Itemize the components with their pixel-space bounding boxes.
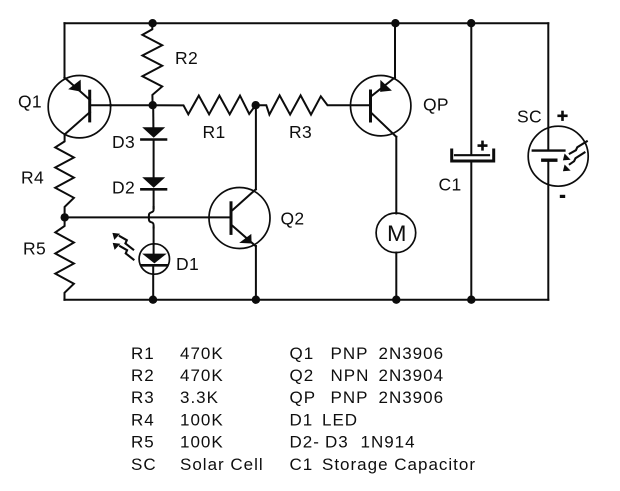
resistor R5	[55, 217, 74, 299]
svg-text:LED: LED	[322, 410, 358, 429]
resistor R1	[153, 96, 256, 115]
transistor Q1	[48, 76, 111, 138]
node Q2 emitter rail	[252, 296, 260, 304]
svg-text:2N3906: 2N3906	[379, 344, 445, 363]
svg-text:Q1: Q1	[18, 92, 42, 112]
svg-text:PNP: PNP	[331, 344, 369, 363]
wire Q2 emitter down	[255, 246, 257, 300]
svg-text:R3: R3	[289, 122, 312, 142]
node D1 bottom rail	[149, 296, 157, 304]
transistor Q2	[209, 188, 270, 249]
node C1 top rail	[467, 19, 475, 27]
wire Q2 base from R4/R5 node	[65, 216, 231, 218]
node R4/R5 junction	[60, 213, 68, 221]
svg-text:R4: R4	[131, 410, 155, 429]
svg-text:Solar Cell: Solar Cell	[180, 455, 264, 474]
svg-text:D2: D2	[112, 178, 135, 198]
node base junction	[149, 101, 157, 109]
svg-text:D2-: D2-	[290, 433, 320, 452]
wire motor to rail	[395, 253, 397, 300]
wire top rail	[64, 22, 548, 24]
svg-text:R4: R4	[21, 168, 44, 188]
capacitor C1	[452, 23, 494, 300]
svg-text:D1: D1	[290, 410, 314, 429]
resistor R3	[256, 95, 371, 114]
svg-text:1N914: 1N914	[361, 433, 416, 452]
svg-text:QP: QP	[423, 95, 449, 115]
wire left rail to Q1 emitter	[64, 23, 66, 78]
wire Q2 collector up	[255, 105, 257, 189]
svg-text:D3: D3	[112, 132, 135, 152]
svg-text:R2: R2	[175, 48, 198, 68]
resistor R2	[142, 23, 162, 105]
node C1 bottom rail	[467, 296, 475, 304]
diode D2	[141, 177, 166, 208]
node R1/R3/Q2 junction	[252, 101, 260, 109]
solar cell SC	[528, 23, 588, 300]
node QP top rail	[391, 19, 399, 27]
svg-text:100K: 100K	[180, 410, 224, 429]
svg-text:QP: QP	[290, 388, 317, 407]
resistor R4	[55, 135, 74, 218]
svg-text:D1: D1	[176, 254, 199, 274]
svg-text:R5: R5	[131, 433, 155, 452]
svg-text:2N3906: 2N3906	[379, 388, 445, 407]
svg-text:R1: R1	[203, 122, 226, 142]
svg-text:NPN: NPN	[331, 366, 370, 385]
diode D3	[141, 106, 166, 177]
svg-text:470K: 470K	[180, 344, 224, 363]
LED D1	[112, 228, 169, 300]
svg-text:Storage Capacitor: Storage Capacitor	[322, 455, 476, 474]
svg-text:3.3K: 3.3K	[180, 388, 219, 407]
motor M	[376, 213, 416, 253]
transistor QP	[351, 76, 411, 137]
svg-text:R1: R1	[131, 344, 155, 363]
wire hop over base wire	[149, 207, 154, 228]
svg-text:100K: 100K	[180, 433, 224, 452]
svg-text:M: M	[387, 221, 407, 246]
svg-text:Q2: Q2	[290, 366, 315, 385]
wire bottom rail	[64, 299, 548, 301]
wire Q1 base to node	[110, 104, 153, 106]
wire QP collector to motor	[395, 137, 397, 214]
svg-text:470K: 470K	[180, 366, 224, 385]
svg-text:PNP: PNP	[331, 388, 369, 407]
svg-text:R3: R3	[131, 388, 155, 407]
svg-text:SC: SC	[517, 107, 542, 127]
svg-text:C1: C1	[290, 455, 314, 474]
svg-text:2N3904: 2N3904	[379, 366, 445, 385]
svg-text:D3: D3	[325, 433, 349, 452]
svg-text:SC: SC	[131, 455, 157, 474]
svg-text:R2: R2	[131, 366, 155, 385]
svg-text:R5: R5	[23, 239, 46, 259]
svg-text:Q2: Q2	[281, 209, 305, 229]
wire QP emitter	[394, 23, 396, 77]
svg-text:C1: C1	[439, 175, 462, 195]
node motor bottom rail	[392, 296, 400, 304]
node top rail R2	[148, 19, 156, 27]
svg-text:Q1: Q1	[290, 344, 315, 363]
